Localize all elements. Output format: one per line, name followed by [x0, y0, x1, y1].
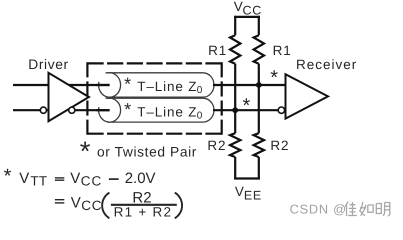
svg-text:or Twisted Pair: or Twisted Pair [97, 145, 197, 160]
svg-text:0: 0 [197, 85, 203, 96]
wire driver top input [13, 84, 49, 86]
svg-text:V: V [70, 170, 80, 187]
svg-text:CC: CC [81, 174, 102, 189]
svg-text:R2: R2 [207, 138, 226, 153]
svg-text:*: * [4, 165, 12, 187]
fraction bar [111, 204, 177, 206]
svg-text:CSDN @: CSDN @ [290, 202, 347, 217]
svg-text:*: * [270, 67, 278, 89]
svg-text:R1: R1 [273, 43, 292, 58]
big left paren [102, 193, 109, 219]
svg-text:R1 + R2: R1 + R2 [114, 205, 173, 220]
svg-text:*: * [124, 100, 131, 120]
wire left bus vertical [234, 64, 236, 133]
wire into T-line 2 cap [96, 109, 110, 111]
svg-text:R2: R2 [270, 138, 289, 153]
T-line 1 end cap [99, 73, 121, 97]
svg-text:V: V [235, 184, 244, 199]
wire VCC top bar [234, 16, 260, 18]
svg-text:CC: CC [81, 198, 102, 213]
wire T-line 2 to receiver bubble [213, 109, 278, 111]
bubble driver inverting input [40, 107, 46, 113]
wire VCC lead left [234, 16, 236, 35]
T-line 2 end cap [99, 98, 121, 122]
watermark CJK jia [345, 202, 357, 217]
wire into T-line 1 cap [96, 84, 110, 86]
wire VEE lead left [234, 157, 236, 180]
wire driver top output to T-line 1 [69, 84, 110, 86]
wire driver bottom output to T-line 2 [75, 109, 110, 111]
resistor R2 right [254, 133, 264, 157]
svg-text:R1: R1 [208, 43, 227, 58]
watermark CJK ming [376, 203, 390, 216]
wire VEE lead right [258, 157, 260, 180]
T-line 1 body [106, 73, 214, 97]
junction dot bottom line [232, 107, 238, 113]
wire VEE bottom bar [234, 177, 260, 179]
driver U1 triangle [49, 73, 89, 121]
resistor R1 right [254, 35, 264, 64]
dashed enclosure box [87, 62, 221, 64]
formula line 2: = VCC(R2/(R1+R2)) [55, 199, 64, 201]
svg-text:*: * [243, 95, 251, 117]
svg-text:2.0V: 2.0V [125, 170, 156, 187]
svg-text:T–Line Z: T–Line Z [137, 79, 197, 94]
big right paren [175, 193, 182, 219]
resistor R1 left [230, 35, 240, 64]
resistor R2 left [230, 133, 240, 157]
svg-text:V: V [19, 170, 29, 187]
T-line 2 body [106, 98, 215, 122]
watermark CJK ru [360, 202, 373, 216]
svg-text:V: V [71, 195, 81, 212]
bubble receiver inverting input [278, 107, 284, 113]
svg-text:Receiver: Receiver [296, 57, 357, 72]
svg-text:*: * [80, 136, 91, 167]
svg-text:*: * [124, 74, 131, 94]
wire VCC lead right [258, 16, 260, 35]
wire T-line 1 to receiver [213, 84, 286, 86]
wire stub bubble to driver edge [47, 109, 50, 111]
svg-text:EE: EE [244, 188, 262, 202]
svg-text:TT: TT [30, 174, 47, 189]
junction dot top line [256, 82, 262, 88]
wire right bus vertical [258, 64, 260, 133]
dashed box right edge [221, 62, 223, 135]
svg-text:T–Line Z: T–Line Z [137, 104, 197, 119]
receiver U2 triangle [286, 74, 329, 118]
svg-text:CC: CC [243, 4, 262, 18]
svg-text:Driver: Driver [28, 57, 68, 72]
svg-text:0: 0 [197, 110, 203, 121]
dashed box bottom edge [87, 133, 221, 135]
dashed box left edge [86, 62, 88, 135]
wire driver bottom input [13, 109, 40, 111]
svg-text:V: V [234, 0, 243, 14]
bubble driver inverting output [69, 107, 75, 113]
